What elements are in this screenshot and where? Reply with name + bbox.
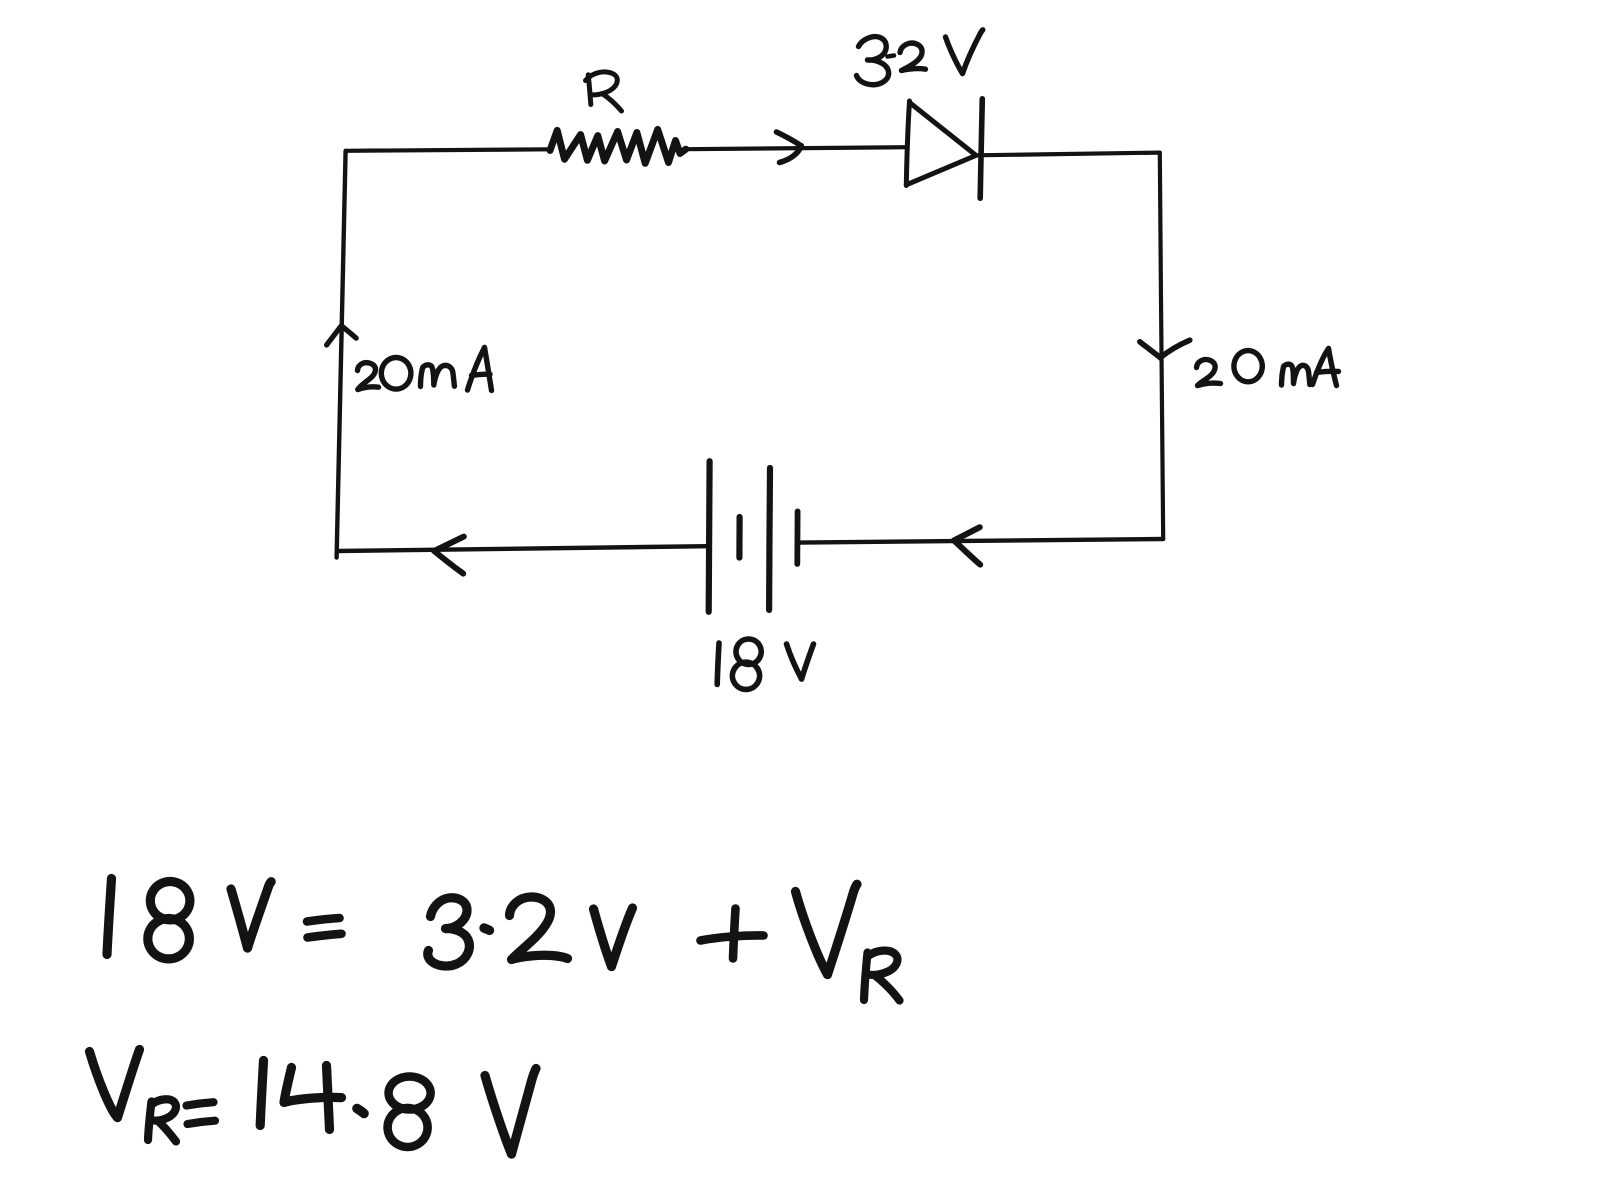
current direction arrow bottom-right [954,527,980,564]
label 20mA right [1197,349,1339,386]
wire left segment [337,151,346,558]
equation line 1: 18 V = 3.2 V + VR [107,879,900,1001]
label 18 V battery [717,639,813,689]
current direction arrow top [777,132,802,163]
battery 18V plate short right [794,511,800,564]
diode D1 cathode bar [980,99,982,198]
battery 18V plate short middle [736,517,742,558]
label R [586,72,622,111]
wire resistor to diode [686,147,906,149]
equation line 2: VR = 14.8 V [90,1050,537,1155]
label 20mA left [358,348,492,391]
wire bottom-right segment [800,539,1163,543]
wire bottom-left segment [337,546,707,551]
current direction arrow right [1140,340,1190,357]
current direction arrow left [327,326,357,345]
diode D1 [906,101,976,186]
wire diode to top-right corner [976,153,1160,156]
current direction arrow bottom-left [434,537,464,574]
wire top-left segment [346,149,551,151]
battery 18V plate long left [706,461,713,612]
resistor R [550,129,686,163]
label 3.2 V [857,30,983,85]
wire right segment [1160,153,1163,539]
battery 18V plate long right [766,468,773,610]
